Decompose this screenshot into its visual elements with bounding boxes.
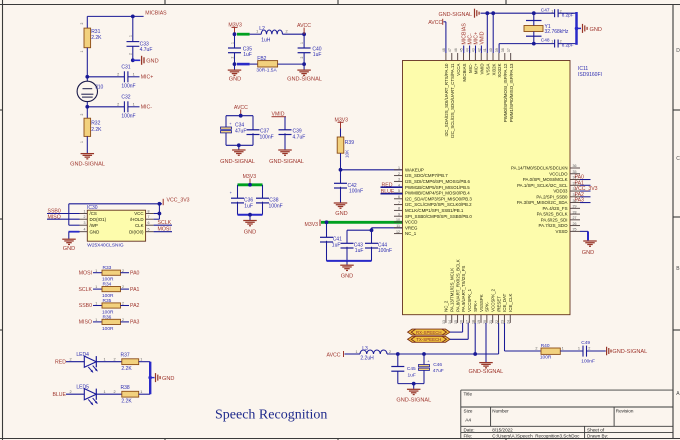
svg-text:6: 6: [398, 195, 400, 199]
svg-text:27: 27: [573, 216, 577, 220]
svg-text:1uF: 1uF: [332, 242, 341, 248]
svg-text:ICE_DAT: ICE_DAT: [502, 293, 507, 312]
svg-text:C46: C46: [433, 362, 442, 368]
svg-text:1: 1: [398, 166, 400, 170]
svg-text:File:: File:: [464, 433, 473, 438]
svg-text:W25X40CLSNIG: W25X40CLSNIG: [87, 242, 124, 248]
svg-text:ICE_CLK: ICE_CLK: [508, 294, 513, 312]
svg-text:12: 12: [396, 230, 400, 234]
svg-text:SPK+: SPK+: [473, 300, 478, 312]
svg-text:5: 5: [148, 228, 150, 232]
svg-text:VCCA: VCCA: [456, 63, 461, 75]
svg-text:PA3: PA3: [575, 198, 585, 204]
svg-text:100nF: 100nF: [581, 358, 595, 364]
svg-text:MICBIAS: MICBIAS: [462, 63, 467, 81]
svg-text:L3: L3: [362, 346, 368, 352]
svg-text:VCC: VCC: [134, 211, 143, 216]
svg-text:I2S_SDI/CMP6/SPI_MOSI1/PB.6: I2S_SDI/CMP6/SPI_MOSI1/PB.6: [405, 179, 470, 184]
svg-text:2.2K: 2.2K: [91, 127, 102, 133]
svg-text:M3V3: M3V3: [305, 222, 319, 228]
svg-text:J10: J10: [95, 84, 103, 90]
svg-text:GND: GND: [63, 246, 75, 252]
svg-text:2: 2: [70, 390, 72, 394]
svg-text:CLK: CLK: [135, 223, 144, 228]
svg-text:R34: R34: [103, 282, 112, 288]
svg-text:2: 2: [114, 390, 116, 394]
svg-text:GND-SIGNAL: GND-SIGNAL: [220, 159, 255, 165]
svg-text:100R: 100R: [102, 326, 114, 332]
svg-text:3: 3: [398, 178, 400, 182]
svg-text:R36: R36: [103, 314, 112, 320]
svg-text:R33: R33: [103, 265, 112, 271]
svg-text:MOSI: MOSI: [79, 270, 92, 276]
svg-text:PA.0/SPI_MOSI/MCLK: PA.0/SPI_MOSI/MCLK: [523, 177, 568, 182]
svg-text:32.768kHz: 32.768kHz: [545, 29, 569, 35]
svg-text:8/15/2022: 8/15/2022: [492, 428, 513, 433]
svg-text:42: 42: [477, 48, 481, 52]
svg-text:/WP: /WP: [90, 223, 98, 228]
svg-text:1: 1: [231, 42, 235, 44]
svg-text:SPK-: SPK-: [485, 301, 490, 312]
svg-text:IC30: IC30: [87, 205, 98, 211]
svg-text:4: 4: [84, 228, 86, 232]
svg-text:35: 35: [573, 170, 577, 174]
svg-text:43: 43: [471, 48, 475, 52]
svg-text:2: 2: [535, 347, 537, 351]
svg-text:36: 36: [573, 164, 577, 168]
svg-text:2: 2: [389, 350, 391, 354]
svg-text:PA.13/TM1/I2S_MCLK: PA.13/TM1/I2S_MCLK: [450, 268, 455, 312]
svg-text:NC_1: NC_1: [405, 231, 417, 236]
svg-text:100R: 100R: [540, 355, 552, 361]
svg-text:19: 19: [477, 320, 481, 324]
svg-text:2: 2: [117, 103, 119, 107]
svg-text:100nF: 100nF: [121, 84, 135, 90]
svg-text:41: 41: [483, 48, 487, 52]
svg-text:VCCSPK_2: VCCSPK_2: [491, 288, 496, 311]
svg-text:BLUE: BLUE: [52, 392, 66, 398]
svg-text:GND: GND: [90, 229, 100, 234]
svg-text:I2C_SCL/CMP2/SPI_SCLK0/PB.2: I2C_SCL/CMP2/SPI_SCLK0/PB.2: [405, 202, 472, 207]
svg-text:39: 39: [495, 48, 499, 52]
svg-text:XI32K: XI32K: [491, 63, 496, 75]
svg-text:PA.3/SPI_MISO/I2C_SDA: PA.3/SPI_MISO/I2C_SDA: [517, 200, 568, 205]
svg-text:/HOLD: /HOLD: [130, 217, 143, 222]
svg-text:PWM0B/CMP4/SPI_MOSI0/PB.4: PWM0B/CMP4/SPI_MOSI0/PB.4: [405, 191, 470, 196]
svg-text:47: 47: [448, 48, 452, 52]
svg-text:R32: R32: [91, 120, 100, 126]
svg-text:2: 2: [129, 53, 133, 55]
svg-text:1: 1: [140, 390, 142, 394]
svg-text:2: 2: [80, 114, 84, 116]
svg-text:2: 2: [70, 358, 72, 362]
svg-text:100nF: 100nF: [269, 203, 283, 209]
svg-text:2: 2: [398, 172, 400, 176]
svg-text:Drawn By:: Drawn By:: [587, 433, 608, 438]
svg-text:C: C: [676, 156, 680, 162]
svg-text:24: 24: [506, 320, 510, 324]
svg-text:2: 2: [122, 269, 124, 273]
svg-text:MIC+: MIC+: [141, 75, 154, 81]
svg-text:2: 2: [122, 302, 124, 306]
svg-text:PA.6/I2S_SDI: PA.6/I2S_SDI: [541, 217, 568, 222]
svg-text:R35: R35: [103, 298, 112, 304]
svg-text:R40: R40: [541, 343, 550, 349]
svg-text:B: B: [676, 266, 680, 272]
svg-text:11: 11: [396, 224, 400, 228]
svg-text:MOSI: MOSI: [158, 227, 171, 233]
svg-text:1uF: 1uF: [244, 203, 253, 209]
svg-text:10: 10: [396, 218, 400, 222]
svg-text:GND-SIGNAL: GND-SIGNAL: [468, 369, 503, 375]
svg-text:2: 2: [122, 318, 124, 322]
svg-text:SCLK: SCLK: [158, 220, 172, 226]
svg-text:2: 2: [114, 358, 116, 362]
svg-text:AVCC: AVCC: [327, 352, 341, 358]
svg-text:I2C_SDA/I2S_SDI/UART_RTS/PA.10: I2C_SDA/I2S_SDI/UART_RTS/PA.10: [444, 63, 449, 137]
svg-text:WAKEUP: WAKEUP: [405, 167, 424, 172]
svg-text:Revision: Revision: [616, 409, 634, 414]
svg-text:GND: GND: [244, 230, 256, 236]
svg-text:ISD9160FI: ISD9160FI: [578, 72, 602, 78]
svg-text:1uF: 1uF: [355, 248, 364, 254]
svg-text:TX-SPEECH: TX-SPEECH: [416, 337, 441, 342]
svg-text:Speech Recognition: Speech Recognition: [215, 407, 327, 422]
svg-text:GND: GND: [162, 376, 174, 382]
svg-text:GND: GND: [146, 59, 158, 65]
svg-text:MIC-: MIC-: [468, 63, 473, 73]
svg-text:1: 1: [104, 390, 106, 394]
svg-text:5: 5: [398, 189, 400, 193]
svg-text:I2C_SDA/CMP3/SPI_MISO0/PB.3: I2C_SDA/CMP3/SPI_MISO0/PB.3: [405, 196, 472, 201]
svg-text:2.2K: 2.2K: [121, 398, 132, 404]
svg-text:C48: C48: [541, 37, 550, 43]
svg-text:2: 2: [117, 73, 119, 77]
svg-text:14: 14: [448, 320, 452, 324]
svg-text:PA.14/TM0/SDCLK/SDCLKN: PA.14/TM0/SDCLK/SDCLKN: [511, 166, 568, 171]
svg-text:VREG: VREG: [405, 225, 418, 230]
svg-text:RX-SPEECH: RX-SPEECH: [416, 330, 442, 335]
svg-text:R39: R39: [345, 140, 354, 146]
svg-text:40: 40: [489, 48, 493, 52]
svg-text:GND: GND: [590, 27, 602, 33]
svg-text:/RESET: /RESET: [496, 296, 501, 312]
svg-text:PA3: PA3: [130, 320, 140, 326]
svg-text:2.2K: 2.2K: [121, 366, 132, 372]
svg-text:GND-SIGNAL: GND-SIGNAL: [70, 162, 105, 168]
svg-text:10K: 10K: [344, 149, 349, 158]
svg-text:28: 28: [573, 210, 577, 214]
svg-text:C32: C32: [121, 95, 130, 101]
svg-text:MCLK/CMP1/SPI_SSB1/PB.1: MCLK/CMP1/SPI_SSB1/PB.1: [405, 208, 464, 213]
svg-text:PA.1/SPI_SCLK/I2C_SCL: PA.1/SPI_SCLK/I2C_SCL: [517, 183, 568, 188]
svg-text:21: 21: [489, 320, 493, 324]
svg-text:1: 1: [551, 9, 553, 13]
svg-text:VCCD: VCCD: [405, 220, 417, 225]
svg-text:SSB0: SSB0: [79, 303, 92, 309]
svg-text:13: 13: [442, 320, 446, 324]
svg-text:FB2: FB2: [257, 56, 266, 62]
svg-text:SCLK: SCLK: [78, 287, 92, 293]
svg-text:C49: C49: [581, 340, 590, 346]
svg-text:Date:: Date:: [464, 428, 475, 433]
svg-text:L2: L2: [259, 26, 265, 32]
svg-text:2: 2: [588, 347, 590, 351]
svg-text:1: 1: [133, 103, 135, 107]
svg-text:1: 1: [562, 347, 564, 351]
svg-text:37: 37: [507, 48, 511, 52]
svg-text:1: 1: [104, 358, 106, 362]
svg-text:1: 1: [578, 347, 580, 351]
svg-text:PA0: PA0: [130, 270, 140, 276]
svg-text:1uF: 1uF: [243, 52, 252, 58]
svg-text:VMID: VMID: [479, 31, 485, 44]
svg-text:1: 1: [140, 358, 142, 362]
svg-text:1: 1: [129, 35, 133, 37]
svg-text:4.7uF: 4.7uF: [293, 134, 306, 140]
svg-text:VSSD: VSSD: [556, 229, 568, 234]
svg-text:1: 1: [80, 141, 84, 143]
svg-text:A: A: [676, 391, 680, 397]
svg-text:SPI_SSB0/CMP0/SPI_SSB0/PB.0: SPI_SSB0/CMP0/SPI_SSB0/PB.0: [405, 214, 472, 219]
svg-text:VMID: VMID: [480, 64, 485, 75]
svg-text:PA.5/I2S_BCLK: PA.5/I2S_BCLK: [537, 212, 568, 217]
svg-text:PWM1/SPI0/MISO_ISP/PA.13: PWM1/SPI0/MISO_ISP/PA.13: [509, 63, 514, 122]
svg-text:GND-SIGNAL: GND-SIGNAL: [439, 12, 473, 18]
svg-text:GND: GND: [582, 250, 594, 256]
svg-text:AVCC: AVCC: [428, 20, 442, 26]
svg-text:R37: R37: [121, 352, 130, 358]
svg-text:1: 1: [84, 210, 86, 214]
svg-text:8: 8: [148, 210, 150, 214]
svg-text:PA1: PA1: [130, 287, 140, 293]
svg-text:29: 29: [573, 205, 577, 209]
svg-text:GND: GND: [229, 76, 241, 82]
svg-text:2.2uH: 2.2uH: [360, 356, 374, 362]
svg-text:100nF: 100nF: [378, 248, 392, 254]
svg-text:1: 1: [256, 30, 258, 34]
svg-text:1: 1: [551, 40, 553, 44]
svg-text:Size: Size: [464, 409, 473, 414]
svg-text:LED5: LED5: [76, 385, 89, 391]
svg-text:MIC+: MIC+: [474, 63, 479, 74]
svg-text:PA.7/I2S_SDO: PA.7/I2S_SDO: [539, 223, 569, 228]
svg-text:GND: GND: [335, 211, 347, 217]
svg-text:25: 25: [573, 228, 577, 232]
svg-text:PWM1B/CMP5/SPI_MISO1/PB.5: PWM1B/CMP5/SPI_MISO1/PB.5: [405, 185, 470, 190]
svg-text:VSSA: VSSA: [485, 63, 490, 75]
svg-text:VDD33: VDD33: [553, 189, 568, 194]
svg-text:Title: Title: [464, 392, 473, 397]
svg-text:2.2K: 2.2K: [91, 35, 102, 41]
svg-text:GND-SIGNAL: GND-SIGNAL: [269, 159, 304, 165]
svg-text:C47: C47: [541, 7, 550, 13]
svg-text:RED: RED: [55, 359, 66, 365]
svg-text:D: D: [676, 48, 680, 54]
svg-text:100nF: 100nF: [121, 114, 135, 120]
svg-text:1uF: 1uF: [313, 52, 322, 58]
svg-text:A4: A4: [465, 417, 471, 423]
svg-text:PA2: PA2: [130, 303, 140, 309]
svg-text:R38: R38: [121, 385, 130, 391]
svg-text:4.7uF: 4.7uF: [140, 47, 153, 53]
svg-text:7: 7: [398, 201, 400, 205]
svg-text:38: 38: [501, 48, 505, 52]
svg-text:8: 8: [398, 207, 400, 211]
svg-text:6: 6: [148, 221, 150, 225]
svg-text:1uH: 1uH: [261, 38, 271, 44]
svg-text:GND-SIGNAL: GND-SIGNAL: [287, 77, 322, 83]
svg-text:45: 45: [460, 48, 464, 52]
svg-text:2: 2: [84, 215, 86, 219]
svg-text:MICBIAS: MICBIAS: [145, 11, 167, 17]
svg-text:17: 17: [466, 320, 470, 324]
svg-text:LED4: LED4: [76, 352, 89, 358]
svg-text:I2S_SDO/CMP7/PB.7: I2S_SDO/CMP7/PB.7: [405, 173, 448, 178]
svg-text:XO32K: XO32K: [497, 63, 502, 77]
svg-text:3: 3: [84, 221, 86, 225]
svg-text:VCCLDO: VCCLDO: [549, 171, 568, 176]
svg-text:PA.2/SPI_SSB0: PA.2/SPI_SSB0: [536, 194, 568, 199]
svg-text:MISO: MISO: [48, 214, 61, 220]
svg-text:MIC-: MIC-: [141, 105, 153, 111]
svg-text:47uF: 47uF: [235, 128, 246, 134]
svg-text:Number: Number: [492, 409, 509, 414]
svg-text:VCC_3V3: VCC_3V3: [167, 198, 190, 204]
svg-text:VCCSPK_1: VCCSPK_1: [467, 288, 472, 311]
svg-text:46: 46: [454, 48, 458, 52]
svg-text:9: 9: [398, 212, 400, 216]
svg-text:PA.4/I2S_FS: PA.4/I2S_FS: [542, 206, 567, 211]
svg-text:1: 1: [80, 51, 84, 53]
svg-text:26: 26: [573, 222, 577, 226]
svg-text:44: 44: [466, 48, 470, 52]
svg-text:PA.8/UART_RX/I2S_BCLK: PA.8/UART_RX/I2S_BCLK: [455, 259, 460, 312]
svg-text:1: 1: [300, 42, 304, 44]
svg-text:15: 15: [454, 320, 458, 324]
svg-text:PWM0/SPI0/MOSI_ISP/PA.12: PWM0/SPI0/MOSI_ISP/PA.12: [503, 63, 508, 122]
svg-text:/CS: /CS: [90, 211, 97, 216]
svg-text:DI(IO0): DI(IO0): [129, 229, 144, 234]
svg-text:M3V3: M3V3: [243, 174, 257, 180]
svg-text:47uF: 47uF: [433, 368, 444, 374]
svg-text:NC_2: NC_2: [444, 300, 449, 312]
svg-text:100nF: 100nF: [260, 134, 274, 140]
svg-text:I2C_SCL/I2S_SDO/UART_CTS/PA.11: I2C_SCL/I2S_SDO/UART_CTS/PA.11: [450, 63, 455, 138]
svg-text:1uF: 1uF: [408, 373, 416, 379]
svg-text:2: 2: [286, 30, 288, 34]
svg-text:GND: GND: [341, 273, 353, 279]
svg-text:DO(IO1): DO(IO1): [90, 217, 107, 222]
svg-text:GND-SIGNAL: GND-SIGNAL: [612, 349, 647, 355]
svg-text:MISO: MISO: [79, 320, 92, 326]
svg-text:2: 2: [80, 23, 84, 25]
svg-text:C31: C31: [121, 65, 130, 71]
svg-text:100nF: 100nF: [349, 189, 363, 195]
svg-text:GND-SIGNAL: GND-SIGNAL: [396, 397, 431, 403]
svg-text:30R-1.5A: 30R-1.5A: [256, 68, 277, 74]
svg-text:1: 1: [133, 73, 135, 77]
svg-text:7: 7: [148, 215, 150, 219]
svg-text:1: 1: [356, 350, 358, 354]
svg-text:C45: C45: [407, 366, 416, 372]
svg-text:C:\Users\A.\Speech_Recognition: C:\Users\A.\Speech_Recognition3.SchDoc: [492, 433, 580, 438]
svg-text:Sheet of: Sheet of: [587, 428, 605, 433]
svg-text:2: 2: [122, 285, 124, 289]
svg-text:PA.9/UART_TX/I2S_FS: PA.9/UART_TX/I2S_FS: [461, 266, 466, 312]
svg-text:VSSSPK: VSSSPK: [479, 294, 484, 312]
